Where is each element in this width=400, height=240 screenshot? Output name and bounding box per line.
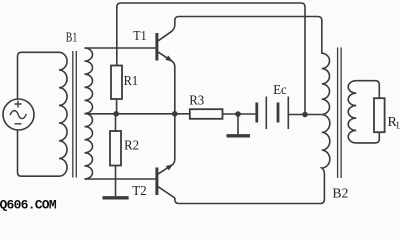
svg-text:B1: B1 [66,30,78,45]
svg-text:R3: R3 [189,93,204,108]
transistor T1 emitter [158,52,175,114]
transistor T1 emitter arrow [165,56,173,62]
resistor R1 [111,66,122,100]
transistor T2 emitter [158,114,175,174]
transformer B2 secondary winding [348,81,356,143]
AC source sine wave [10,111,26,119]
transformer B1 primary winding [59,52,67,176]
wire: R2 bottom to ground (crosses T2 base wire) [115,166,117,197]
svg-text:Ec: Ec [273,83,287,98]
transformer B1 secondary winding (center tapped) [85,48,93,179]
battery Ec plate 3 (short thick) [277,103,280,123]
wire: B1 secondary top to T1 base [85,47,156,49]
transistor T2 emitter arrow [166,164,174,170]
svg-text:R1: R1 [124,74,139,89]
transformer B1 core [73,51,77,178]
wire: center node to R2 top [115,114,117,131]
transistor T1 collector, rail to B2 primary, B2 primary winding, bottom rail, T2 collector [158,17,330,204]
battery Ec plate 2 (long thin) [265,97,267,130]
wire: battery + to B2 center tap [289,114,322,116]
AC source G1 [3,99,34,130]
ground bar (below R2) [103,196,129,199]
svg-text:Q606.COM: Q606.COM [0,198,57,213]
junction node: battery plus / B2 tap / top rail [302,112,308,118]
svg-text:L: L [396,120,400,130]
wire: B2 secondary bottom to Rt [356,132,379,143]
resistor R2 [110,131,121,166]
svg-text:T2: T2 [132,184,147,199]
AC source minus sign [15,123,22,125]
wire: R3 right to battery minus [223,113,256,115]
transistor T2 base bar [155,168,158,196]
wire: R1 bottom to center node [116,99,118,114]
battery Ec plate 1 (short thick) [255,103,258,123]
wire: ground stub at mid node [237,114,239,134]
wire: B1 secondary bottom to T2 base [85,178,156,180]
transformer B2 core [338,48,342,179]
junction node: ground/battery minus [235,111,241,117]
wire: source bottom to B1 primary bottom [18,130,60,176]
wire: R1 top up, top rail, down to battery + node [117,3,305,115]
svg-text:R2: R2 [124,138,139,153]
wire: center node horizontal (tap to R3) [85,113,190,115]
resistor R3 [190,109,223,119]
junction node: emitters [172,111,178,117]
junction node: R1/R2/center-tap [113,111,119,117]
AC source plus sign [15,101,22,108]
wire: source top to B1 primary top [18,52,60,99]
svg-text:T1: T1 [133,29,146,44]
ground bar (mid) [227,134,251,137]
transistor T1 base bar [155,33,158,61]
resistor Rt (load) [374,98,385,132]
svg-text:B2: B2 [332,186,348,201]
wire: B2 secondary top to Rt [356,81,379,99]
battery Ec plate 4 (long thin) [287,97,289,130]
